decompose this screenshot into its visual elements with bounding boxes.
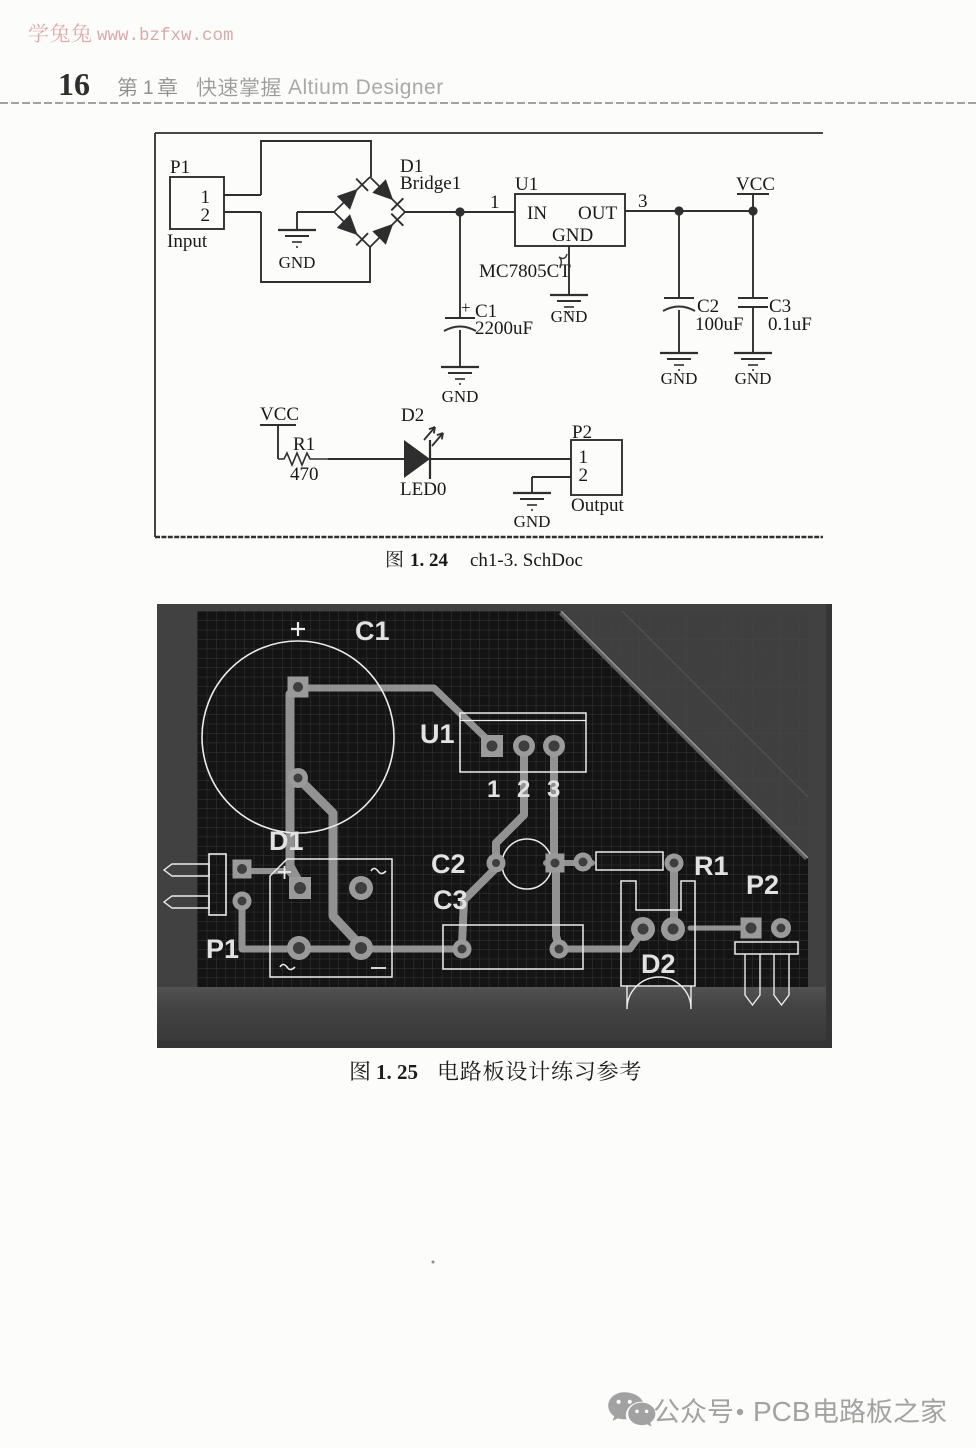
svg-text:R1: R1 bbox=[694, 851, 729, 881]
svg-text:LED0: LED0 bbox=[400, 479, 446, 500]
svg-text:GND: GND bbox=[552, 225, 593, 246]
svg-text:D1: D1 bbox=[269, 826, 304, 856]
svg-text:VCC: VCC bbox=[260, 404, 299, 425]
svg-text:P1: P1 bbox=[206, 934, 239, 964]
svg-text:GND: GND bbox=[442, 387, 479, 406]
svg-text:U1: U1 bbox=[420, 719, 455, 749]
svg-text:Altium Designer: Altium Designer bbox=[288, 76, 444, 99]
svg-text:1. 25: 1. 25 bbox=[376, 1060, 418, 1084]
svg-text:P1: P1 bbox=[170, 157, 190, 178]
svg-text:1: 1 bbox=[490, 192, 500, 213]
svg-text:www.bzfxw.com: www.bzfxw.com bbox=[97, 26, 234, 46]
svg-text:Bridge1: Bridge1 bbox=[400, 173, 461, 194]
svg-text:GND: GND bbox=[514, 512, 551, 531]
svg-text:C3: C3 bbox=[433, 885, 468, 915]
svg-text:+: + bbox=[461, 298, 471, 317]
svg-text:1: 1 bbox=[143, 78, 154, 99]
svg-text:Input: Input bbox=[167, 231, 208, 252]
svg-text:2: 2 bbox=[579, 465, 589, 486]
svg-text:OUT: OUT bbox=[578, 203, 617, 224]
svg-text:100uF: 100uF bbox=[695, 314, 744, 335]
svg-text:16: 16 bbox=[58, 66, 90, 102]
svg-text:C1: C1 bbox=[355, 616, 390, 646]
svg-text:GND: GND bbox=[735, 369, 772, 388]
svg-text:GND: GND bbox=[661, 369, 698, 388]
svg-text:P2: P2 bbox=[572, 422, 592, 443]
svg-text:3: 3 bbox=[638, 191, 648, 212]
svg-text:IN: IN bbox=[527, 203, 547, 224]
svg-text:Output: Output bbox=[571, 495, 625, 516]
svg-text:GND: GND bbox=[551, 307, 588, 326]
svg-text:2: 2 bbox=[201, 205, 211, 226]
svg-text:2200uF: 2200uF bbox=[475, 318, 533, 339]
svg-text:C2: C2 bbox=[431, 849, 466, 879]
svg-text:3: 3 bbox=[547, 776, 560, 803]
svg-text:1. 24: 1. 24 bbox=[410, 550, 449, 571]
svg-text:R1: R1 bbox=[293, 434, 315, 455]
svg-text:PCB: PCB bbox=[753, 1396, 811, 1427]
svg-text:2: 2 bbox=[517, 776, 530, 803]
svg-text:P2: P2 bbox=[746, 870, 779, 900]
svg-text:U1: U1 bbox=[515, 174, 538, 195]
svg-text:VCC: VCC bbox=[736, 174, 775, 195]
svg-text:D2: D2 bbox=[641, 949, 676, 979]
svg-text:470: 470 bbox=[290, 464, 319, 485]
svg-text:ch1-3. SchDoc: ch1-3. SchDoc bbox=[470, 550, 583, 571]
svg-text:1: 1 bbox=[487, 776, 500, 803]
svg-text:0.1uF: 0.1uF bbox=[768, 314, 812, 335]
svg-text:GND: GND bbox=[279, 253, 316, 272]
svg-text:D2: D2 bbox=[401, 405, 424, 426]
svg-text:MC7805CT: MC7805CT bbox=[479, 261, 571, 282]
